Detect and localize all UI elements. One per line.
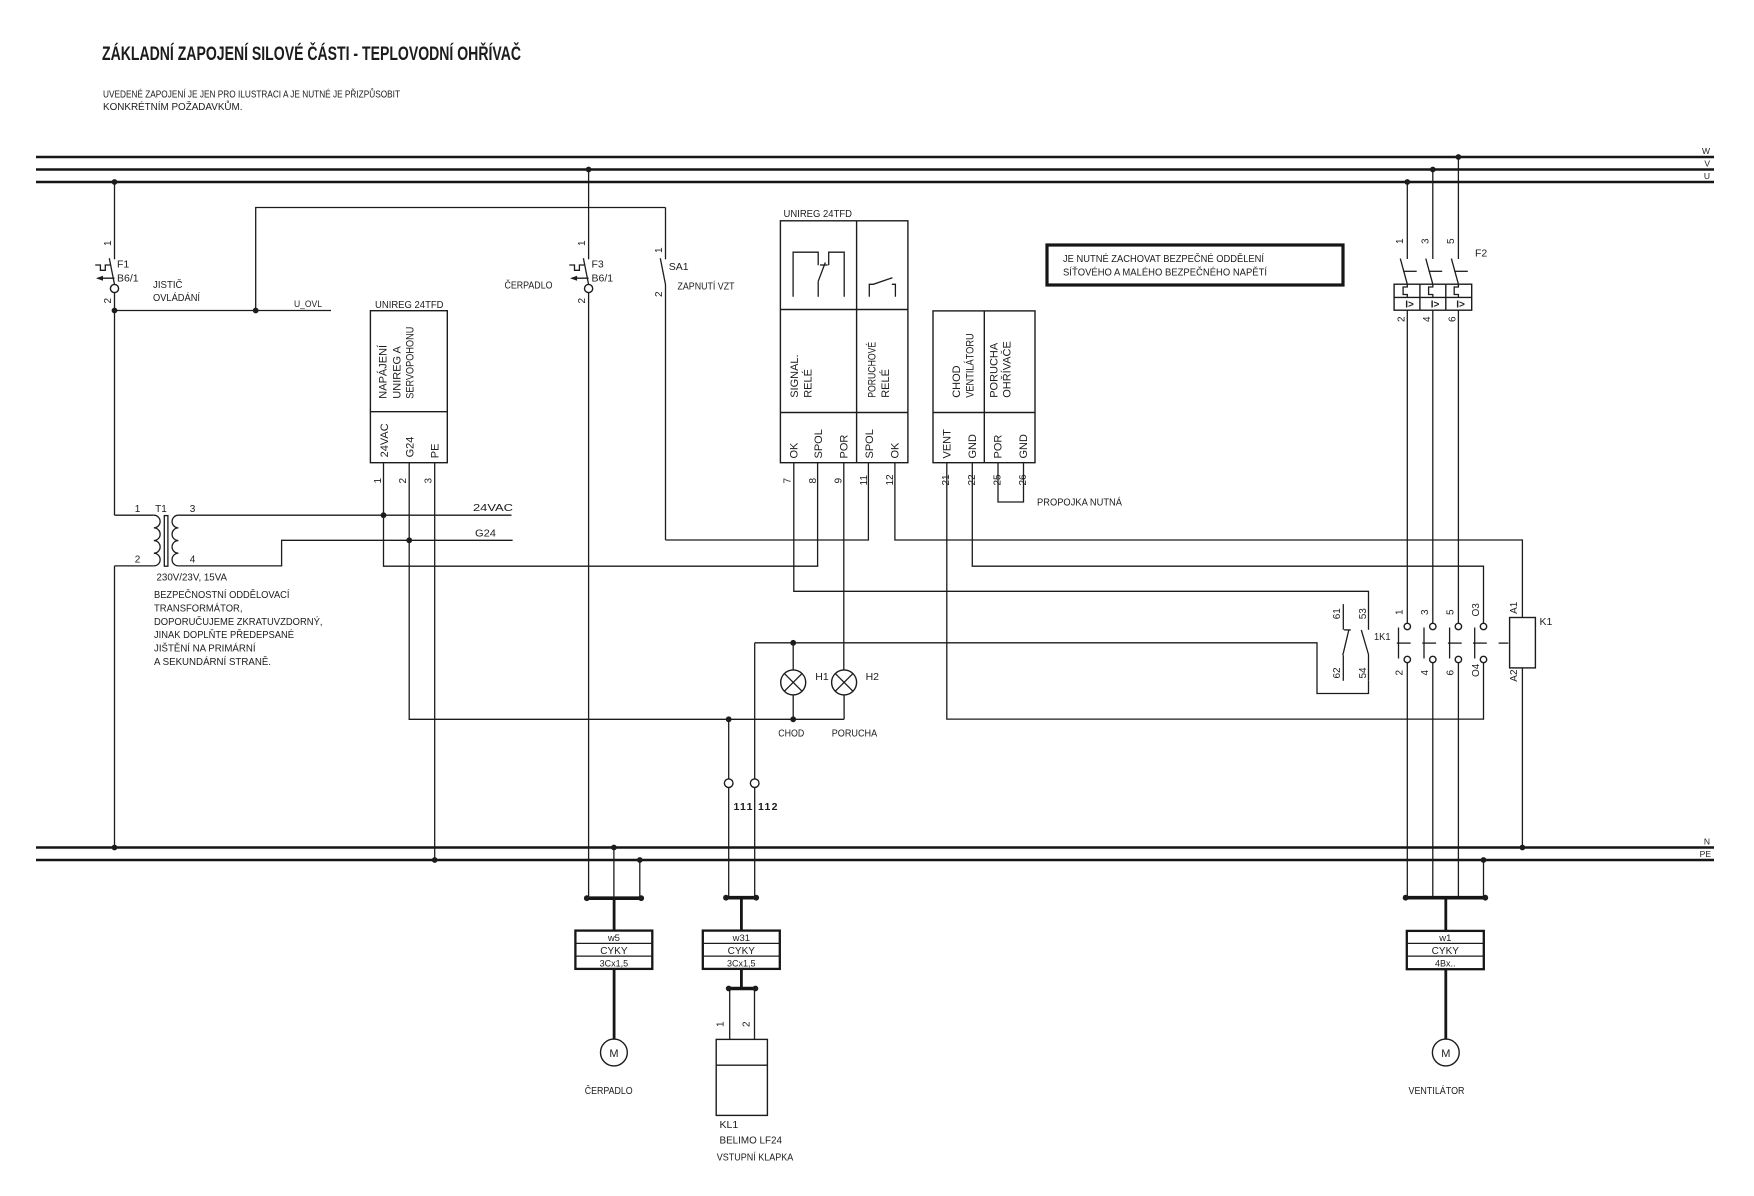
lamp H1 [781,643,829,720]
wire T1 pin2 to N [114,566,116,848]
lamp H2 [832,670,880,719]
svg-text:VENTILÁTORU: VENTILÁTORU [963,333,976,398]
svg-text:4Bx..: 4Bx.. [1435,958,1456,968]
junction dot N-W5 [611,845,617,851]
label JISTIC OVLADANI [153,278,200,304]
junction dot F1-U bus [112,179,118,185]
wire N to W5 [613,848,615,899]
junction dot F1 pin2 [112,308,118,314]
switch SA1 [654,208,689,541]
svg-text:1: 1 [716,1021,727,1027]
svg-text:SÍŤOVÉHO A MALÉHO BEZPEČNÉHO N: SÍŤOVÉHO A MALÉHO BEZPEČNÉHO NAPĚTÍ [1063,266,1267,279]
svg-text:CYKY: CYKY [1432,946,1460,957]
svg-text:111 112: 111 112 [734,801,779,813]
wire PE to cable W1 [1483,860,1485,898]
svg-text:OVLÁDÁNÍ: OVLÁDÁNÍ [153,291,200,304]
svg-text:CYKY: CYKY [600,946,628,957]
svg-text:ČERPADLO: ČERPADLO [585,1084,633,1097]
svg-text:UVEDENÉ ZAPOJENÍ JE JEN PRO IL: UVEDENÉ ZAPOJENÍ JE JEN PRO ILUSTRACI A … [103,88,400,101]
svg-text:230V/23V, 15VA: 230V/23V, 15VA [157,572,228,584]
svg-text:VSTUPNÍ KLAPKA: VSTUPNÍ KLAPKA [717,1151,794,1164]
plug contact 112 [750,643,759,898]
svg-text:V: V [1704,159,1710,169]
svg-text:KL1: KL1 [720,1119,739,1131]
breaker F2 (3-pole motor protector) [1394,154,1487,322]
wire pin1 24VAC [384,463,819,567]
svg-text:A2: A2 [1509,669,1520,682]
svg-text:F1: F1 [117,259,129,271]
relay symbol fault (NO) [869,278,895,297]
relay contact 1K1 61-62 (NC) [1332,604,1351,681]
svg-text:4: 4 [1420,670,1431,676]
svg-text:G24: G24 [404,437,416,458]
bus V [36,159,1714,170]
svg-text:OHŘÍVAČE: OHŘÍVAČE [1001,341,1014,398]
junction dot H1 bottom [790,716,796,722]
transformer T1 [115,504,228,584]
relay contact 1K1 53-54 (NO) [1358,608,1369,681]
wires K1 contacts to cable W1 [1407,663,1458,898]
svg-text:53: 53 [1358,608,1369,620]
svg-text:PE: PE [430,444,442,459]
contactor K1 main contacts [1394,603,1508,677]
svg-text:U: U [1704,171,1710,181]
svg-text:ZÁKLADNÍ ZAPOJENÍ SILOVÉ ČÁSTI: ZÁKLADNÍ ZAPOJENÍ SILOVÉ ČÁSTI - TEPLOVO… [102,41,521,65]
svg-text:54: 54 [1358,667,1369,679]
svg-text:CHOD: CHOD [951,365,963,397]
svg-text:VENTILÁTOR: VENTILÁTOR [1409,1084,1465,1097]
svg-text:B6/1: B6/1 [592,273,614,285]
svg-text:2: 2 [1397,316,1408,322]
wire K1 A2 to N [1521,668,1523,848]
svg-text:6: 6 [1445,670,1456,676]
motor M ventilator [1432,1039,1459,1066]
svg-text:PORUCHA: PORUCHA [832,728,878,740]
svg-text:VENT: VENT [942,429,954,459]
wire pin3 PE down [434,463,436,860]
svg-text:RELÉ: RELÉ [801,369,814,398]
svg-text:CHOD: CHOD [778,728,804,740]
svg-text:3Cx1,5: 3Cx1,5 [600,958,629,968]
cable W1 [1407,898,1484,1039]
cable bar W31 bottom [726,986,759,992]
wire pin12 OK to K1 coil A1 [895,463,1523,618]
junction dot PE-W5 [637,857,643,863]
svg-text:DOPORUČUJEME ZKRATUVZDORNÝ,: DOPORUČUJEME ZKRATUVZDORNÝ, [154,615,323,628]
bus U [36,171,1714,182]
svg-text:24VAC: 24VAC [379,423,391,457]
svg-text:BELIMO LF24: BELIMO LF24 [720,1135,783,1147]
bus W [36,146,1714,157]
svg-text:SPOL: SPOL [813,429,825,458]
UNIREG 24TFD relay box U2 [780,208,908,486]
svg-text:ZAPNUTÍ VZT: ZAPNUTÍ VZT [678,280,735,293]
svg-text:1: 1 [577,240,588,246]
cable bar W5 [584,895,644,901]
svg-text:OK: OK [890,442,902,459]
svg-text:1: 1 [103,240,114,246]
relay symbol signal (changeover) [793,252,844,297]
svg-text:I>: I> [1431,299,1440,310]
jumper pins 25-26 [998,463,1024,502]
wire F1 to T1 pin1 [114,311,116,516]
svg-text:w1: w1 [1438,933,1451,944]
node U_OVL [115,299,332,311]
svg-text:ČERPADLO: ČERPADLO [505,279,553,292]
svg-text:1: 1 [1394,609,1405,615]
wires to KL1 [716,989,755,1040]
svg-text:I>: I> [1405,299,1414,310]
svg-text:GND: GND [1018,434,1030,459]
svg-text:N: N [1704,837,1710,847]
svg-text:PORUCHA: PORUCHA [988,342,1000,398]
svg-text:BEZPEČNOSTNÍ ODDĚLOVACÍ: BEZPEČNOSTNÍ ODDĚLOVACÍ [154,588,290,601]
svg-text:6: 6 [1448,316,1459,322]
svg-text:U_OVL: U_OVL [294,299,322,310]
wire pin8 SPOL [817,463,819,567]
svg-text:5: 5 [1446,238,1457,244]
svg-text:62: 62 [1332,667,1343,679]
svg-text:I>: I> [1456,299,1465,310]
svg-text:UNIREG 24TFD: UNIREG 24TFD [375,299,444,311]
svg-text:A1: A1 [1509,601,1520,614]
svg-text:H1: H1 [815,671,829,683]
svg-text:TRANSFORMÁTOR,: TRANSFORMÁTOR, [154,601,243,614]
svg-text:PORUCHOVÉ: PORUCHOVÉ [866,342,879,398]
junction dot T1-N [112,845,118,851]
junction dot H1 top [790,640,796,646]
svg-text:O3: O3 [1471,603,1482,617]
wire U_OVL riser to SA1 [256,208,666,311]
bus PE [36,849,1714,860]
junction dot 111 tee [726,716,732,722]
note text transformer [154,588,323,668]
terminal box CHOD VENTILATORU / PORUCHA OHRIVACE [933,311,1035,486]
svg-text:T1: T1 [155,504,167,515]
junction dot pin3-PE [432,857,438,863]
svg-text:KONKRÉTNÍM POŽADAVKŮM.: KONKRÉTNÍM POŽADAVKŮM. [103,100,243,113]
cable W5 [575,898,652,1039]
svg-text:JE NUTNÉ ZACHOVAT BEZPEČNÉ ODD: JE NUTNÉ ZACHOVAT BEZPEČNÉ ODDĚLENÍ [1063,252,1264,265]
svg-text:SA1: SA1 [669,261,689,273]
svg-text:SPOL: SPOL [864,429,876,458]
svg-text:1: 1 [373,478,384,484]
junction dot pin1-24VAC [381,512,387,518]
svg-text:POR: POR [993,435,1005,459]
svg-text:M: M [609,1048,618,1060]
svg-text:JIŠTĚNÍ NA PRIMÁRNÍ: JIŠTĚNÍ NA PRIMÁRNÍ [154,642,256,655]
svg-text:M: M [1441,1048,1450,1060]
motor M cerpadlo [601,1039,628,1066]
wire pin2 G24 down [409,463,844,720]
svg-text:O4: O4 [1471,663,1482,677]
svg-text:F2: F2 [1475,248,1487,260]
svg-text:OK: OK [788,442,800,459]
svg-text:SIGNAL.: SIGNAL. [789,354,801,397]
svg-text:PROPOJKA NUTNÁ: PROPOJKA NUTNÁ [1037,496,1122,509]
svg-text:1: 1 [135,504,141,515]
svg-text:3: 3 [424,478,435,484]
net 24VAC [178,502,513,515]
svg-text:SERVOPOHONU: SERVOPOHONU [404,327,416,399]
svg-text:2: 2 [577,298,588,304]
junction dot PE-W1 [1481,857,1487,863]
junction dot U_OVL riser [253,308,259,314]
svg-text:2: 2 [135,555,141,566]
junction dot A2-N [1520,845,1526,851]
wire pin7 OK to 1K1-53 [794,463,1369,630]
net G24 [178,528,512,566]
svg-text:5: 5 [1445,609,1456,615]
bus N [36,837,1714,848]
svg-text:JISTIČ: JISTIČ [153,278,183,291]
svg-text:2: 2 [103,298,114,304]
svg-text:UNIREG 24TFD: UNIREG 24TFD [784,208,853,220]
junction dot pin2-G24 [406,537,412,543]
svg-text:B6/1: B6/1 [117,273,139,285]
svg-text:1K1: 1K1 [1374,631,1391,643]
actuator KL1 [716,1039,782,1146]
svg-text:4: 4 [1422,316,1433,322]
breaker F1 [95,182,139,311]
svg-text:61: 61 [1332,608,1343,620]
junction dot F3-V bus [586,167,592,173]
svg-text:11: 11 [859,475,870,486]
svg-text:GND: GND [967,434,979,459]
cable W31 [703,898,780,988]
svg-text:A SEKUNDÁRNÍ STRANĚ.: A SEKUNDÁRNÍ STRANĚ. [154,655,271,668]
svg-text:POR: POR [838,435,850,459]
svg-text:7: 7 [783,478,794,484]
wire pin9 POR to H2 [843,463,845,670]
svg-text:H2: H2 [866,671,880,683]
wire PE to W5 [639,860,641,898]
subtitle [103,88,400,114]
svg-text:3: 3 [1420,609,1431,615]
svg-text:RELÉ: RELÉ [879,369,892,398]
svg-text:2: 2 [654,291,665,297]
svg-text:NAPÁJENÍ: NAPÁJENÍ [377,344,390,399]
wire SA1 to pin11 [666,463,869,540]
svg-text:2: 2 [741,1021,752,1027]
svg-text:w5: w5 [607,933,620,944]
warning box [1047,245,1343,285]
svg-text:1: 1 [654,247,665,253]
svg-text:4: 4 [190,555,196,566]
svg-text:F3: F3 [592,259,604,271]
cable bar W1 [1403,895,1489,901]
svg-text:JINAK DOPLŇTE PŘEDEPSANÉ: JINAK DOPLŇTE PŘEDEPSANÉ [154,628,294,641]
UNIREG 24TFD power box U1 [370,299,447,484]
svg-text:2: 2 [398,478,409,484]
svg-text:3: 3 [190,504,196,515]
svg-text:K1: K1 [1540,616,1553,628]
svg-text:G24: G24 [475,528,496,540]
svg-text:24VAC: 24VAC [473,502,514,514]
svg-text:2: 2 [1394,670,1405,676]
wires F2 to K1 contacts [1407,310,1458,623]
cable bar W31 top [723,895,759,901]
plug contact 111 [724,719,733,897]
net CHOD line [755,643,1369,694]
svg-text:1: 1 [1395,238,1406,244]
wire pin22 GND to K1-O3 [972,463,1483,624]
svg-text:3Cx1,5: 3Cx1,5 [727,958,756,968]
svg-text:W: W [1702,146,1710,156]
svg-text:UNIREG A: UNIREG A [391,345,403,398]
svg-text:PE: PE [1700,849,1712,859]
svg-text:w31: w31 [732,933,750,944]
svg-text:CYKY: CYKY [728,946,756,957]
svg-text:9: 9 [834,478,845,484]
wire pin21 VENT to K1-O4 [947,463,1484,719]
breaker F3 [569,170,613,899]
coil K1 [1509,601,1553,681]
svg-text:3: 3 [1421,238,1432,244]
